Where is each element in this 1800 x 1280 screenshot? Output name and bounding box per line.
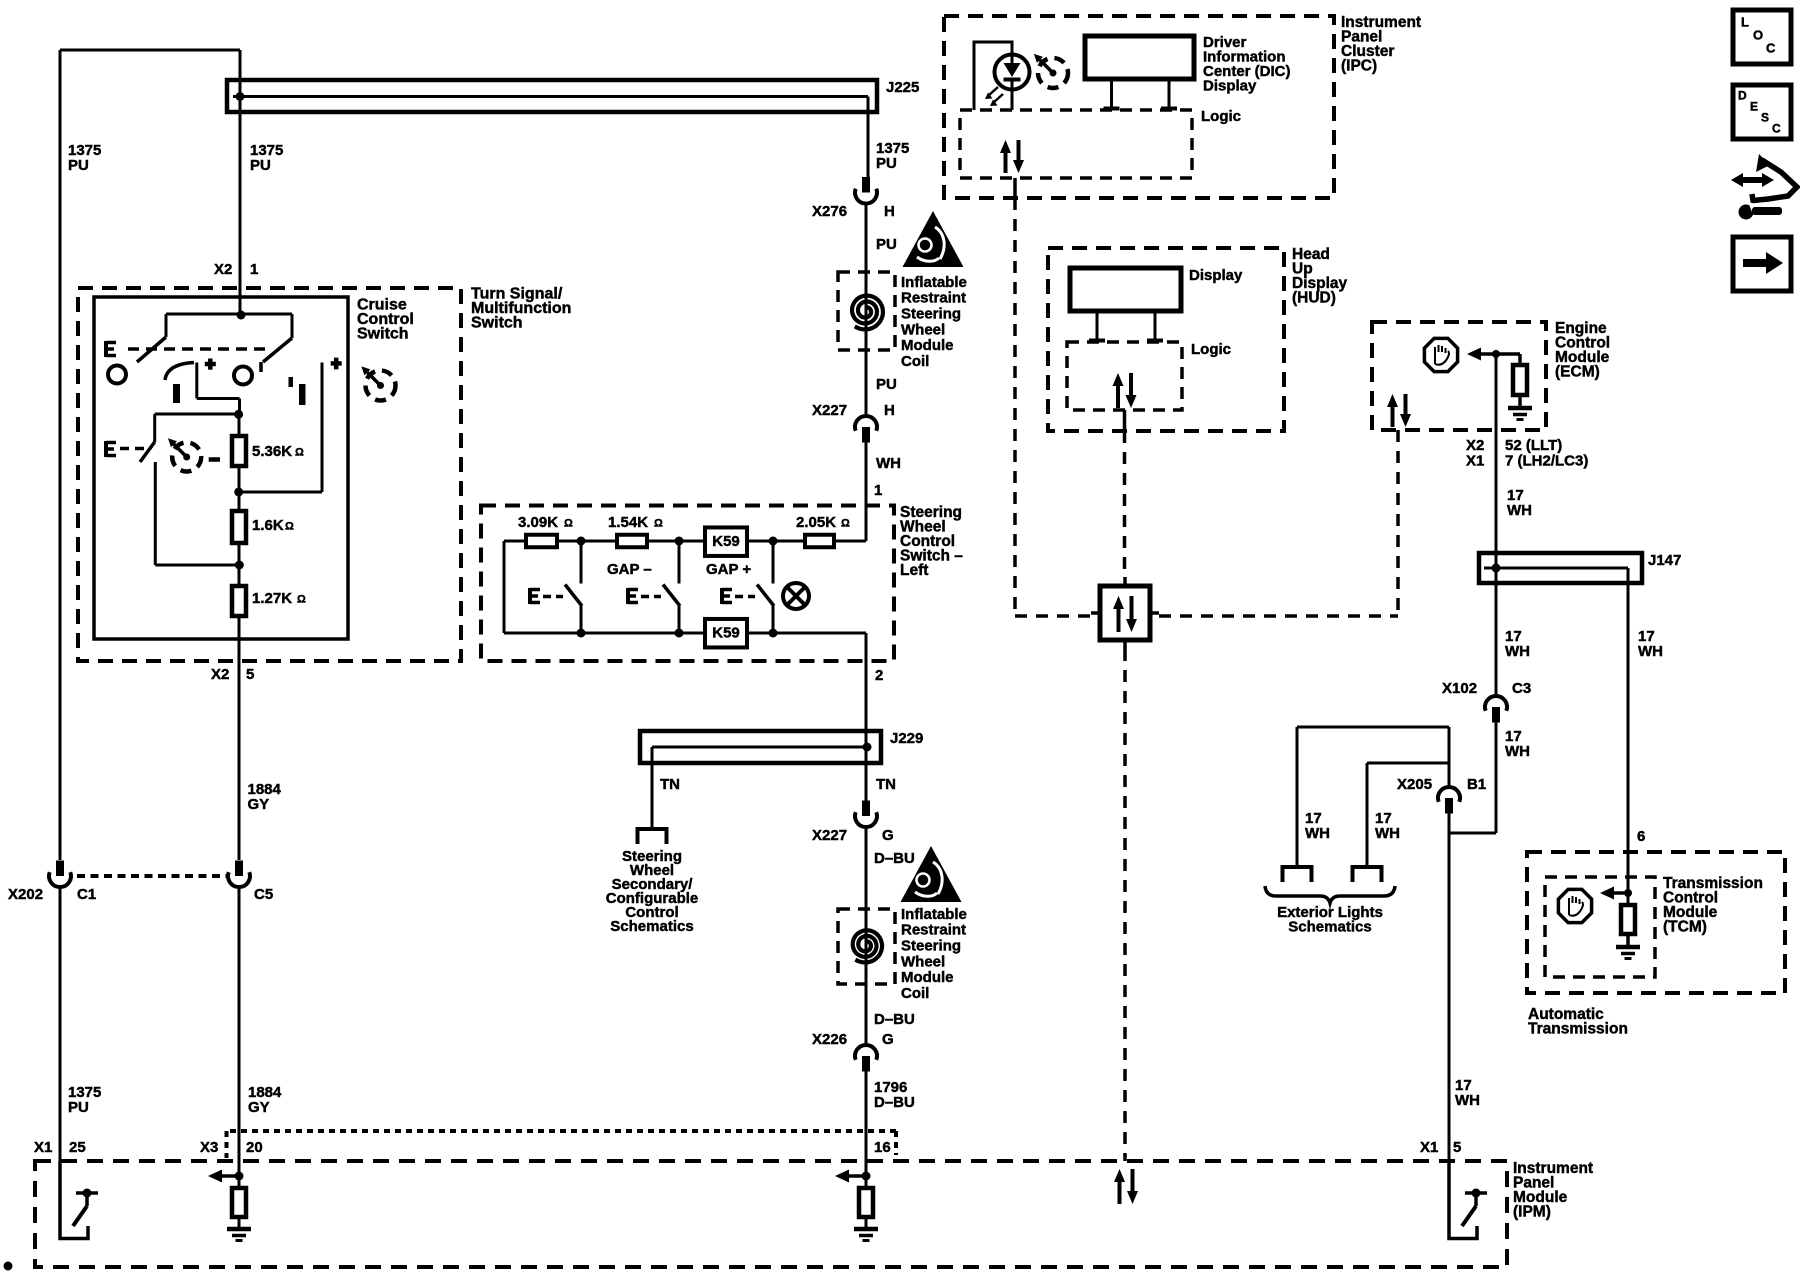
- svg-text:(HUD): (HUD): [1292, 290, 1336, 307]
- svg-text:D: D: [1738, 89, 1747, 103]
- svg-text:X2: X2: [1466, 437, 1484, 454]
- svg-text:Ω: Ω: [297, 594, 306, 606]
- svg-text:Left: Left: [900, 562, 928, 579]
- svg-text:Restraint: Restraint: [901, 290, 966, 307]
- svg-text:G: G: [882, 827, 894, 844]
- svg-text:H: H: [884, 203, 895, 220]
- svg-text:C5: C5: [254, 886, 273, 903]
- svg-text:D–BU: D–BU: [874, 1094, 915, 1111]
- svg-text:Wheel: Wheel: [901, 953, 945, 970]
- svg-text:H: H: [884, 402, 895, 419]
- svg-text:X227: X227: [812, 402, 847, 419]
- svg-text:C3: C3: [1512, 680, 1531, 697]
- svg-text:Display: Display: [1189, 267, 1243, 284]
- svg-text:1.27K: 1.27K: [252, 590, 292, 607]
- svg-text:GAP –: GAP –: [607, 561, 652, 578]
- svg-text:1.54K: 1.54K: [608, 514, 648, 531]
- svg-text:E: E: [1750, 100, 1758, 114]
- svg-text:Switch: Switch: [357, 326, 409, 343]
- svg-text:20: 20: [246, 1139, 263, 1156]
- svg-text:TN: TN: [876, 776, 896, 793]
- svg-text:X226: X226: [812, 1031, 847, 1048]
- svg-text:Logic: Logic: [1201, 108, 1241, 125]
- svg-text:5: 5: [246, 666, 254, 683]
- svg-text:C: C: [1772, 122, 1781, 136]
- svg-text:Inflatable: Inflatable: [901, 274, 967, 291]
- svg-text:PU: PU: [876, 376, 897, 393]
- svg-text:X102: X102: [1442, 680, 1477, 697]
- svg-text:Coil: Coil: [901, 353, 929, 370]
- svg-text:C: C: [1766, 40, 1776, 55]
- svg-text:Logic: Logic: [1191, 341, 1231, 358]
- svg-text:TN: TN: [660, 776, 680, 793]
- svg-text:PU: PU: [876, 236, 897, 253]
- svg-text:B1: B1: [1467, 776, 1486, 793]
- svg-text:K59: K59: [712, 625, 740, 642]
- svg-text:(IPC): (IPC): [1341, 58, 1377, 75]
- svg-text:Steering: Steering: [901, 306, 961, 323]
- svg-text:C1: C1: [77, 886, 96, 903]
- svg-text:PU: PU: [68, 1099, 89, 1116]
- svg-text:X2: X2: [211, 666, 229, 683]
- svg-text:G: G: [882, 1031, 894, 1048]
- svg-text:PU: PU: [250, 157, 271, 174]
- svg-text:L: L: [1741, 14, 1749, 29]
- svg-text:6: 6: [1637, 828, 1645, 845]
- svg-text:Inflatable: Inflatable: [901, 906, 967, 923]
- svg-text:Ω: Ω: [285, 521, 294, 533]
- svg-text:WH: WH: [1638, 643, 1663, 660]
- svg-text:2: 2: [875, 667, 883, 684]
- svg-text:O: O: [1753, 27, 1763, 42]
- svg-text:Coil: Coil: [901, 985, 929, 1002]
- svg-text:Display: Display: [1203, 77, 1257, 94]
- svg-text:(ECM): (ECM): [1555, 364, 1600, 381]
- svg-text:X202: X202: [8, 886, 43, 903]
- svg-text:Ω: Ω: [654, 518, 663, 530]
- svg-text:GAP +: GAP +: [706, 561, 751, 578]
- svg-text:Schematics: Schematics: [1288, 918, 1371, 935]
- svg-text:52 (LLT): 52 (LLT): [1505, 437, 1562, 454]
- svg-text:GY: GY: [248, 796, 270, 813]
- svg-text:WH: WH: [1455, 1092, 1480, 1109]
- svg-text:X276: X276: [812, 203, 847, 220]
- svg-text:X1: X1: [34, 1139, 52, 1156]
- svg-text:X205: X205: [1397, 776, 1432, 793]
- svg-text:Restraint: Restraint: [901, 922, 966, 939]
- svg-text:Module: Module: [901, 337, 954, 354]
- svg-text:GY: GY: [248, 1099, 270, 1116]
- svg-text:X1: X1: [1466, 452, 1484, 469]
- svg-text:Steering: Steering: [901, 938, 961, 955]
- svg-text:1: 1: [250, 261, 258, 278]
- svg-text:Module: Module: [901, 969, 954, 986]
- svg-text:K59: K59: [712, 533, 740, 550]
- svg-text:(IPM): (IPM): [1513, 1204, 1551, 1221]
- svg-text:WH: WH: [1305, 825, 1330, 842]
- svg-text:X1: X1: [1420, 1139, 1438, 1156]
- svg-text:X2: X2: [214, 261, 232, 278]
- svg-text:WH: WH: [1375, 825, 1400, 842]
- svg-text:Schematics: Schematics: [610, 918, 693, 935]
- svg-text:D–BU: D–BU: [874, 1011, 915, 1028]
- svg-text:3.09K: 3.09K: [518, 514, 558, 531]
- svg-text:J147: J147: [1648, 552, 1681, 569]
- svg-text:Ω: Ω: [564, 518, 573, 530]
- svg-text:J229: J229: [890, 730, 923, 747]
- svg-text:Ω: Ω: [841, 518, 850, 530]
- svg-text:PU: PU: [876, 155, 897, 172]
- svg-text:J225: J225: [886, 79, 919, 96]
- svg-text:WH: WH: [1505, 643, 1530, 660]
- svg-text:16: 16: [874, 1139, 891, 1156]
- svg-text:5.36K: 5.36K: [252, 443, 292, 460]
- svg-text:WH: WH: [876, 455, 901, 472]
- svg-text:25: 25: [69, 1139, 86, 1156]
- svg-text:1: 1: [874, 482, 882, 499]
- svg-text:X227: X227: [812, 827, 847, 844]
- svg-text:X3: X3: [200, 1139, 218, 1156]
- svg-text:1.6K: 1.6K: [252, 517, 284, 534]
- svg-text:7 (LH2/LC3): 7 (LH2/LC3): [1505, 452, 1588, 469]
- svg-text:Ω: Ω: [295, 447, 304, 459]
- svg-text:5: 5: [1453, 1139, 1461, 1156]
- svg-text:PU: PU: [68, 157, 89, 174]
- svg-text:Transmission: Transmission: [1528, 1021, 1628, 1038]
- svg-text:D–BU: D–BU: [874, 850, 915, 867]
- svg-text:Switch: Switch: [471, 315, 523, 332]
- svg-text:(TCM): (TCM): [1663, 919, 1707, 936]
- svg-text:Wheel: Wheel: [901, 321, 945, 338]
- svg-text:WH: WH: [1507, 502, 1532, 519]
- svg-text:2.05K: 2.05K: [796, 514, 836, 531]
- svg-text:S: S: [1761, 111, 1769, 125]
- svg-text:WH: WH: [1505, 743, 1530, 760]
